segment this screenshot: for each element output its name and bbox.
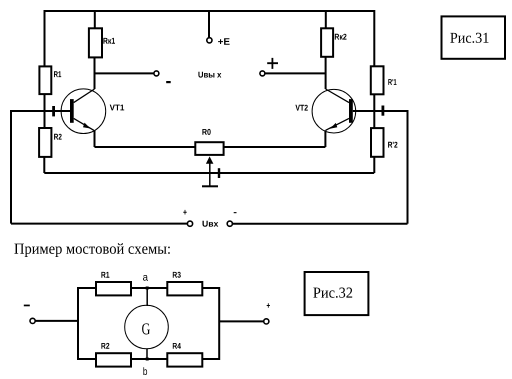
label Uvyh [198,72,221,78]
resistor R4 bridge [167,353,202,366]
tick on mid rail [218,168,220,178]
resistor R3 bridge [167,282,202,295]
wire Rk1 to VT1 collector [94,57,96,89]
ground [202,185,218,187]
node a [146,287,149,290]
resistor R2 bridge [96,353,131,366]
terminal plus bridge [264,319,269,324]
tick on VT2 base wire [382,106,385,116]
label Uvx [203,221,219,227]
wire G to b [146,349,148,359]
wire R2 bottom to mid rail [43,157,45,173]
wire R1 to base node [44,94,46,128]
label G [142,323,150,334]
resistor R'2 [371,128,384,157]
wire Uvyh right [265,72,325,74]
caption text [14,243,169,257]
label VT2 [295,105,307,111]
resistor Rk1 [89,28,102,57]
label - (bridge) [24,305,30,307]
resistor R'1 [371,66,384,94]
box Ris.31 [442,16,506,58]
wire right outer vertical [407,110,409,224]
wire Rk1 rail to box [94,10,96,28]
label R2 [54,134,62,140]
label Ris.31 [450,33,488,43]
label R1 (bridge) [101,272,109,278]
potentiometer R0 [195,142,223,155]
wire VT2 emitter down [324,130,326,147]
wire right terminal [219,320,263,322]
wire Rk2 to VT2 collector [325,57,327,89]
wire R'2 bottom to mid rail [373,157,375,173]
transistor VT1 [61,89,106,134]
wire VT1 base [11,110,70,112]
label R3 (bridge) [173,272,181,278]
label +E [218,38,230,44]
node b [146,358,149,361]
label R2 (bridge) [101,343,109,349]
terminal +E [207,38,212,43]
label node b [143,367,147,375]
wiper arrow [209,163,211,186]
label R4 (bridge) [173,343,181,349]
wire left branch top (rail to R1) [44,10,46,66]
label + (Uvx) [183,210,186,215]
label Rk2 [335,34,347,40]
wire R0 right [224,146,326,148]
label - (Uvyh) [166,81,171,83]
wire top rail [44,10,374,12]
resistor R2 [39,128,51,157]
label - (Uvx) [234,212,237,213]
box Ris.32 [305,272,369,315]
terminal Uvx plus [187,221,192,226]
bridge top wire [78,287,219,289]
wire Uvyh left [95,72,154,74]
label R1 [54,71,61,77]
wire R'1 rail to box [373,10,375,66]
label Rk1 [103,38,115,44]
wire Rk2 rail to box [325,10,327,28]
terminal Uvx minus [227,221,232,226]
wire left outer vertical [10,110,12,224]
label + (bridge) [267,303,270,308]
bridge right rail [218,287,220,360]
tick on VT1 base wire [52,106,55,116]
wire R'1 to R'2 [373,94,375,128]
resistor Rk2 [321,28,333,57]
label R0 [202,129,210,135]
wire Uvx minus to right outer [232,223,407,225]
label R'2 [388,142,397,148]
label Ris.32 [313,288,352,298]
wire mid rail [44,172,374,174]
wire bottom left to Uvx plus terminal [11,223,187,225]
bridge left rail [77,287,79,360]
transistor VT2 [312,89,356,133]
terminal minus bridge [30,318,35,323]
wire VT1 emitter down [94,130,96,147]
wire VT2 base [353,110,408,112]
terminal Uvyh right [260,71,265,76]
plus sign large [267,58,278,69]
wire left terminal [35,320,78,322]
wire +E tap [208,10,210,38]
wire a to G [146,288,148,306]
bridge bottom wire [78,358,219,360]
label VT1 [110,105,125,111]
resistor R1 bridge [96,282,131,295]
label R'1 [388,79,396,85]
galvanometer G [125,305,169,349]
resistor R1 [39,66,51,94]
label node a [143,275,148,281]
wire emitters to R0 [95,146,196,148]
terminal Uvyh left [154,71,159,76]
